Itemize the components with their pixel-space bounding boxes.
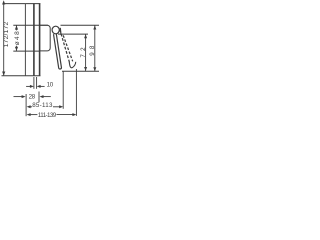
- node handle sleeve: [40, 25, 51, 51]
- label 98: [89, 45, 96, 56]
- label 172/172: [3, 21, 10, 47]
- wire bottom extension line y=75.8: [2, 75, 41, 77]
- label ø48: [14, 31, 21, 45]
- svg-text:85-113: 85-113: [32, 102, 53, 109]
- wire ext vertical below solid lever tip x=63.2: [62, 71, 64, 108]
- node knob: [52, 26, 59, 34]
- node knob swung solid cap: [69, 62, 75, 68]
- wire ext vertical below dashed knob x=75.45: [75, 69, 77, 116]
- svg-text:111-139: 111-139: [38, 112, 57, 119]
- dimension ø48: [15, 25, 18, 51]
- node lever solid: [54, 34, 62, 69]
- node lever edge-on piece at knob right: [59, 28, 62, 35]
- svg-text:10: 10: [47, 81, 54, 88]
- wire ext from solid lever tip right y=70.9: [62, 70, 99, 72]
- svg-text:28: 28: [29, 94, 36, 101]
- dimension 28 (row B): [14, 92, 51, 117]
- wire ext line y=25.2 (sleeve top / dim refs): [13, 24, 48, 26]
- dimension 98: [93, 26, 96, 72]
- wire ext line y=33.8 (handle mid): [58, 33, 88, 35]
- label 72: [80, 47, 87, 58]
- node body back line (concealed housing): [24, 4, 26, 76]
- wire ext line y=51.1 (sleeve bottom): [13, 50, 39, 52]
- dimension 10 (row A): [26, 77, 44, 89]
- svg-text:ø48: ø48: [14, 31, 21, 45]
- svg-text:172/172: 172/172: [3, 21, 10, 47]
- dimension 85-113 (row C): [27, 105, 64, 108]
- dimension 111-139 (row D): [27, 113, 77, 116]
- wire top extension line y=3.6 from dim 172 to body front: [3, 3, 40, 5]
- dimension 72: [84, 34, 87, 71]
- dimension 172/172: [2, 0, 5, 75]
- node plate front line: [39, 3, 41, 76]
- node wall/plate line 1: [33, 3, 35, 76]
- node lever dashed position: [60, 30, 70, 63]
